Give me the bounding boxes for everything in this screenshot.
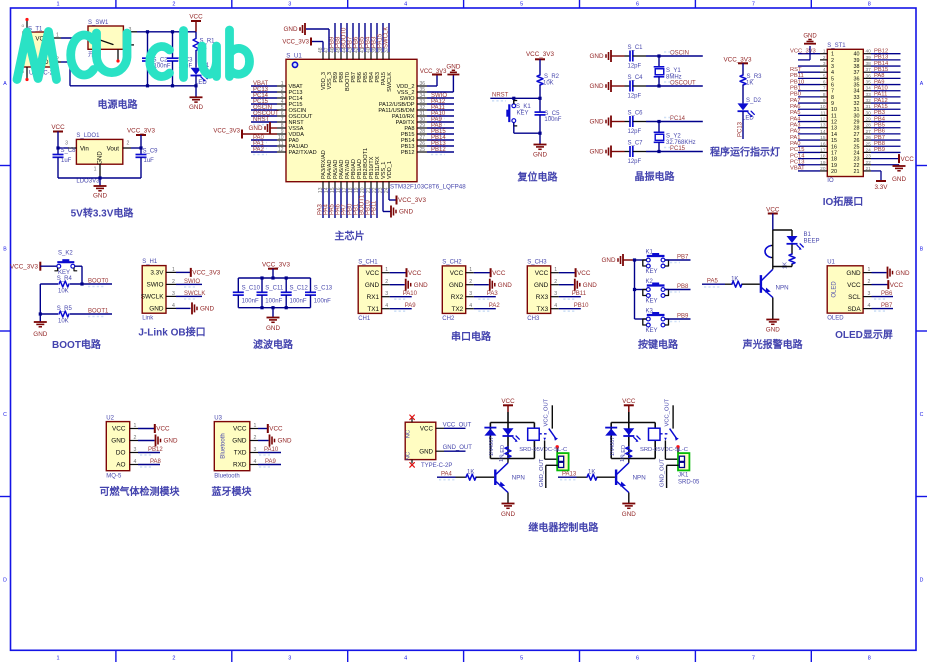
svg-text:S_ST1: S_ST1 (827, 43, 846, 49)
svg-text:S_R5: S_R5 (57, 306, 73, 312)
svg-text:PB11: PB11 (372, 200, 378, 215)
svg-text:GND: GND (98, 151, 104, 165)
svg-text:PB7: PB7 (881, 303, 893, 309)
svg-text:8: 8 (868, 656, 871, 662)
wire relay emitter to ground (507, 493, 509, 504)
capacitor S_C9 1uF (140, 148, 142, 155)
svg-text:电源电路: 电源电路 (98, 98, 139, 111)
svg-text:Vout: Vout (107, 145, 120, 152)
net PB12 at U2 DO (138, 452, 160, 454)
svg-text:S_Y2: S_Y2 (666, 134, 681, 140)
svg-text:S_C4: S_C4 (628, 75, 644, 81)
svg-text:NC: NC (406, 430, 412, 438)
svg-text:PA1: PA1 (790, 135, 801, 141)
svg-text:PC13: PC13 (738, 121, 744, 137)
svg-text:PC14: PC14 (790, 153, 805, 159)
svg-text:D: D (920, 578, 924, 584)
svg-text:PB9: PB9 (874, 147, 885, 153)
svg-text:19: 19 (831, 163, 837, 169)
svg-text:PA2/TX/AD: PA2/TX/AD (289, 150, 317, 156)
svg-text:GND: GND (896, 270, 910, 277)
svg-text:BOOT1: BOOT1 (88, 308, 109, 314)
push button K3 KEY (635, 318, 647, 320)
relay switch (539, 433, 548, 435)
junction dot relay NO contact (676, 445, 679, 448)
net VCC_OUT relay common (551, 405, 553, 428)
net GND_OUT from terminal (667, 464, 679, 466)
transistor Q NPN relay driver (615, 470, 617, 486)
svg-text:S_H1: S_H1 (142, 259, 158, 265)
svg-text:7: 7 (752, 656, 755, 662)
ground GND at OLED (872, 272, 887, 274)
svg-text:按键电路: 按键电路 (638, 338, 679, 351)
svg-text:100nF: 100nF (290, 298, 307, 304)
svg-text:1K: 1K (620, 455, 626, 462)
ground GND keys (622, 254, 624, 266)
svg-text:PC14: PC14 (670, 116, 686, 122)
svg-text:1: 1 (56, 2, 59, 8)
svg-text:VCC_3V3: VCC_3V3 (10, 263, 38, 270)
ground GND at U2 (138, 440, 155, 442)
svg-text:PB7: PB7 (874, 135, 885, 141)
svg-text:GND: GND (602, 257, 616, 264)
svg-text:S_Y1: S_Y1 (666, 68, 681, 74)
svg-text:GND: GND (249, 125, 263, 132)
power VCC at U3 (258, 428, 268, 430)
wire VDD_3 to VCC_3V3 (322, 42, 324, 53)
svg-text:PC15: PC15 (790, 147, 805, 153)
svg-text:U1: U1 (827, 259, 835, 265)
svg-text:OLED: OLED (832, 281, 838, 298)
svg-text:12: 12 (831, 120, 837, 126)
svg-text:4: 4 (404, 656, 407, 662)
svg-text:NPN: NPN (633, 475, 646, 482)
svg-text:PA15: PA15 (874, 104, 888, 110)
net VCC_OUT relay common (672, 405, 674, 428)
svg-text:NPN: NPN (776, 285, 789, 292)
svg-text:GND: GND (399, 209, 413, 216)
svg-text:33: 33 (854, 95, 860, 101)
svg-text:PA0: PA0 (790, 141, 801, 147)
push button K1 KEY (635, 259, 647, 261)
svg-text:TYPE-C-2P: TYPE-C-2P (421, 463, 452, 469)
resistor 1K relay base, net PA4 (437, 476, 456, 478)
svg-text:PC13: PC13 (790, 160, 805, 166)
svg-text:VCC_3V3: VCC_3V3 (723, 56, 751, 63)
capacitor S_C1 12pF with ground and net OSCIN (610, 50, 612, 62)
resistor S_R3 1K (740, 75, 746, 85)
S_ST1 pin3 stub (798, 65, 820, 67)
svg-text:J-Link OB接口: J-Link OB接口 (138, 326, 205, 339)
svg-text:GND: GND (766, 327, 780, 334)
svg-text:36: 36 (854, 76, 860, 82)
svg-text:21: 21 (854, 169, 860, 175)
svg-text:PB7: PB7 (677, 255, 689, 261)
svg-text:BOOT0: BOOT0 (88, 278, 109, 284)
svg-text:GND_OUT: GND_OUT (539, 458, 545, 487)
svg-text:PB4: PB4 (874, 116, 886, 122)
svg-text:SRD-05VDC-SL-C: SRD-05VDC-SL-C (519, 447, 567, 453)
svg-text:1K: 1K (746, 81, 753, 87)
svg-text:100nF: 100nF (314, 298, 331, 304)
capacitor S_C2 100nF (142, 57, 153, 59)
svg-text:GND: GND (590, 149, 604, 156)
svg-text:PA4: PA4 (790, 116, 801, 122)
ground GND at S_ST1 pin2 (798, 59, 810, 61)
svg-text:复位电路: 复位电路 (517, 171, 559, 184)
svg-text:GND: GND (446, 63, 460, 70)
svg-text:26: 26 (854, 138, 860, 144)
svg-text:IO: IO (827, 178, 834, 184)
svg-text:10: 10 (831, 107, 837, 113)
svg-text:S_C1: S_C1 (628, 45, 644, 51)
svg-text:PB12: PB12 (431, 147, 446, 153)
junction dot relay NO contact (556, 445, 559, 448)
wire K3 to net PB9 (665, 318, 691, 320)
wire VDD_2 to VCC_3V3 (427, 85, 437, 87)
net SWIO at S_H1 (191, 283, 203, 285)
svg-text:PA8: PA8 (874, 73, 885, 79)
svg-text:8MHz: 8MHz (666, 75, 682, 81)
capacitor S_C7 12pF with ground and net PC15 (610, 146, 612, 158)
svg-text:PB3: PB3 (874, 110, 885, 116)
capacitor S_C10 100nF (237, 278, 239, 292)
svg-text:18: 18 (831, 157, 837, 163)
crystal S_Y2 32.768KHz (658, 122, 660, 133)
svg-text:12pF: 12pF (628, 159, 642, 165)
svg-text:1uF: 1uF (61, 158, 72, 164)
LED D1 (191, 68, 202, 75)
svg-text:PA11: PA11 (874, 92, 887, 98)
svg-text:PA3: PA3 (790, 123, 801, 129)
svg-text:24: 24 (854, 150, 860, 156)
svg-text:VCC_3V3: VCC_3V3 (420, 69, 447, 75)
svg-text:1: 1 (56, 656, 59, 662)
power VCC at U2 (138, 428, 155, 430)
svg-text:GND: GND (803, 34, 817, 40)
svg-text:VBAT: VBAT (790, 166, 805, 172)
svg-text:GND: GND (533, 152, 547, 159)
svg-text:12pF: 12pF (628, 129, 642, 135)
svg-text:声光报警电路: 声光报警电路 (742, 338, 804, 351)
svg-text:主芯片: 主芯片 (335, 230, 365, 243)
svg-text:SWIO: SWIO (146, 282, 163, 289)
header S_H1 J-Link (142, 266, 166, 314)
relay switch (660, 433, 669, 435)
svg-text:VCC_3V3: VCC_3V3 (282, 40, 309, 46)
capacitor S_C12 100nF (285, 278, 287, 292)
svg-text:B: B (920, 247, 924, 253)
svg-text:晶振电路: 晶振电路 (635, 170, 676, 183)
svg-text:GND: GND (590, 83, 604, 90)
svg-text:GND: GND (93, 193, 107, 200)
svg-text:2: 2 (127, 141, 130, 147)
svg-text:3: 3 (288, 2, 291, 8)
resistor 1K alarm (791, 245, 793, 255)
svg-text:PB11: PB11 (572, 291, 587, 297)
svg-text:NRST: NRST (492, 93, 509, 99)
power VCC (191, 20, 201, 22)
capacitor S_C3 10uF (167, 57, 178, 59)
wire cap branch 2 (172, 32, 174, 58)
svg-text:PB0: PB0 (790, 92, 801, 98)
svg-text:Link: Link (142, 316, 154, 322)
svg-text:NRST: NRST (253, 117, 270, 123)
net SWCLK at S_H1 (191, 295, 203, 297)
wire boot pulldown bus (39, 284, 41, 322)
svg-text:VCC: VCC (535, 270, 549, 277)
wire bottom rail (70, 85, 196, 87)
svg-text:S_C9: S_C9 (143, 149, 159, 155)
wire reset bottom (514, 132, 540, 134)
svg-text:PA5: PA5 (790, 110, 801, 116)
svg-text:U2: U2 (106, 416, 114, 422)
svg-text:GND: GND (498, 282, 512, 289)
svg-text:SWIO: SWIO (184, 279, 200, 285)
svg-text:20: 20 (831, 169, 837, 175)
capacitor S_C8 1uF (57, 148, 59, 155)
svg-text:GND_OUT: GND_OUT (443, 445, 473, 451)
header S_CH3 serial CH3 (527, 266, 550, 314)
svg-text:VCC: VCC (233, 426, 247, 433)
svg-text:VCC: VCC (622, 398, 636, 405)
wire S_K2 to BOOT0 (75, 265, 82, 267)
svg-text:Bluetooth: Bluetooth (221, 433, 227, 458)
power VCC at OLED (872, 284, 889, 286)
svg-text:14: 14 (831, 132, 837, 138)
svg-text:1K: 1K (731, 277, 738, 283)
svg-text:VCC: VCC (450, 270, 464, 277)
svg-text:5: 5 (520, 656, 523, 662)
buzzer B1 BEEP (765, 246, 771, 258)
wire K1 to net PB7 (665, 259, 691, 261)
wire LDO bottom rail (58, 177, 141, 179)
relay coil K (649, 428, 661, 440)
svg-text:GND: GND (365, 282, 380, 289)
svg-text:PB9: PB9 (677, 314, 689, 320)
svg-text:PB10: PB10 (574, 303, 589, 309)
svg-text:CH3: CH3 (527, 316, 540, 322)
power VCC_3V3 at LDO (136, 134, 146, 136)
svg-text:可燃气体检测模块: 可燃气体检测模块 (100, 485, 181, 498)
svg-text:S_C8: S_C8 (61, 148, 77, 154)
svg-text:OLED显示屏: OLED显示屏 (835, 329, 893, 341)
net PA10 at U3 TXD (258, 452, 281, 454)
svg-text:KEY: KEY (646, 269, 658, 275)
svg-text:3: 3 (65, 141, 68, 147)
ground GND at U3 (258, 440, 269, 442)
svg-text:10K: 10K (58, 289, 69, 295)
wire LDO output (123, 147, 131, 149)
svg-text:PA4: PA4 (441, 472, 453, 478)
resistor 1K relay led (626, 447, 632, 458)
svg-text:S_U1: S_U1 (286, 52, 302, 59)
power VCC_3V3 above MCU (310, 38, 312, 46)
svg-text:GND: GND (111, 438, 126, 445)
capacitor S_C6 12pF with ground and net PC14 (610, 116, 612, 128)
LED relay indicator (623, 428, 634, 435)
svg-text:TXD: TXD (234, 450, 247, 457)
svg-text:27: 27 (854, 132, 860, 138)
svg-text:S_C6: S_C6 (628, 111, 644, 117)
svg-text:VCC: VCC (51, 124, 65, 131)
no-connect X marks TYPE-C-2P (411, 419, 413, 423)
wire S_T1 pin2 to bottom rail (52, 61, 61, 63)
module U1 OLED (827, 266, 863, 313)
svg-text:4: 4 (831, 70, 834, 76)
header S_ST1 IO expansion (827, 49, 863, 176)
svg-text:C: C (920, 412, 924, 418)
svg-text:K2: K2 (646, 279, 654, 285)
wire LDO ground pin (99, 164, 101, 178)
svg-text:MQ-5: MQ-5 (106, 474, 122, 480)
svg-text:GND: GND (284, 26, 298, 33)
svg-text:RXD: RXD (233, 462, 247, 469)
svg-text:PA13: PA13 (562, 472, 577, 478)
svg-text:PB12: PB12 (148, 447, 163, 453)
wire relay NC contact to terminal (664, 441, 666, 460)
svg-text:STM32F103C8T6_LQFP48: STM32F103C8T6_LQFP48 (390, 183, 466, 190)
power VCC_3V3 below MCU (396, 196, 398, 205)
svg-text:GND: GND (149, 306, 164, 313)
svg-text:PB8: PB8 (874, 141, 885, 147)
svg-text:PB1: PB1 (790, 86, 801, 92)
ground GND alarm (766, 319, 779, 321)
resistor 1K relay base, net PA13 (558, 476, 577, 478)
svg-text:KEY: KEY (517, 110, 529, 116)
wire K2 to net PB8 (665, 289, 691, 291)
svg-text:2: 2 (172, 656, 175, 662)
svg-text:11: 11 (831, 113, 837, 119)
svg-text:BEEP: BEEP (804, 239, 820, 245)
svg-text:K1: K1 (646, 250, 654, 256)
svg-text:10K: 10K (58, 319, 69, 325)
svg-text:GND: GND (590, 119, 604, 126)
resistor S_R5 10K net BOOT1 (40, 313, 58, 315)
svg-text:IO拓展口: IO拓展口 (823, 195, 864, 208)
svg-text:S_LDO1: S_LDO1 (76, 133, 100, 139)
svg-text:PA9: PA9 (405, 303, 417, 309)
svg-text:PA12: PA12 (874, 98, 888, 104)
svg-text:VCC: VCC (901, 156, 915, 163)
svg-text:SWCLK: SWCLK (184, 291, 205, 297)
svg-text:GND: GND (266, 325, 280, 332)
svg-text:GND: GND (278, 438, 292, 445)
svg-text:28: 28 (854, 126, 860, 132)
svg-text:39: 39 (854, 58, 860, 64)
header S_CH1 serial CH1 (358, 266, 381, 314)
wire alarm bottom node (773, 266, 792, 268)
svg-text:A: A (920, 81, 924, 87)
svg-text:VCC_3V3: VCC_3V3 (213, 128, 240, 134)
svg-text:PB12: PB12 (874, 49, 888, 55)
svg-text:17: 17 (831, 150, 837, 156)
module U2 MQ-5 gas sensor (106, 422, 129, 471)
svg-text:S_R4: S_R4 (57, 276, 73, 282)
svg-text:RST: RST (790, 67, 802, 73)
svg-text:S_K1: S_K1 (516, 104, 531, 110)
svg-text:VCC: VCC (577, 270, 591, 277)
LED S_D2 (738, 103, 749, 110)
power 3.3V at S_ST1 pin21 (871, 170, 881, 172)
svg-text:SCL: SCL (848, 294, 861, 301)
svg-text:VCC_OUT: VCC_OUT (443, 422, 472, 428)
ground GND at VSSA (270, 127, 277, 129)
svg-text:PB11: PB11 (790, 73, 804, 79)
svg-text:VCC_3V3: VCC_3V3 (790, 49, 816, 55)
svg-text:B: B (3, 247, 7, 253)
svg-text:37: 37 (854, 70, 860, 76)
svg-text:VCC: VCC (420, 426, 434, 433)
ground GND power circuit (190, 96, 203, 98)
wire S_SW1 pin1 stub (123, 44, 134, 46)
connector S_T1 USB-C-2P (23, 32, 52, 67)
svg-text:GND: GND (846, 270, 861, 277)
terminal block 2p (557, 453, 568, 470)
svg-text:LDO3V3: LDO3V3 (76, 179, 100, 185)
LED in alarm branch (791, 230, 793, 236)
svg-text:S_K2: S_K2 (58, 251, 73, 257)
transistor Q NPN alarm (760, 275, 762, 293)
svg-text:GND: GND (590, 53, 604, 60)
ground GND reset (539, 133, 541, 144)
power VCC_3V3 at S_H1 (190, 268, 192, 277)
svg-text:PA9: PA9 (265, 459, 277, 465)
svg-text:OLED: OLED (827, 316, 844, 322)
svg-text:3: 3 (831, 64, 834, 70)
svg-text:GND: GND (892, 176, 906, 183)
svg-text:34: 34 (854, 89, 860, 95)
svg-text:5: 5 (831, 76, 834, 82)
svg-text:滤波电路: 滤波电路 (253, 338, 294, 351)
svg-text:GND_OUT: GND_OUT (660, 458, 666, 487)
svg-text:13: 13 (831, 126, 837, 132)
watermark placeholder (0, 0, 1, 1)
watermark MCUclub logo (17, 30, 250, 80)
svg-text:PA6: PA6 (790, 104, 801, 110)
svg-text:SRD-05VDC-SL-C: SRD-05VDC-SL-C (640, 447, 688, 453)
svg-text:15: 15 (831, 138, 837, 144)
svg-text:PB6: PB6 (874, 129, 885, 135)
svg-text:38: 38 (854, 64, 860, 70)
svg-text:29: 29 (854, 120, 860, 126)
svg-text:PA8: PA8 (150, 459, 162, 465)
diode 1N4007 flyback (605, 427, 617, 429)
svg-text:1K: 1K (783, 262, 789, 269)
svg-text:40: 40 (854, 52, 860, 58)
svg-text:LED: LED (742, 116, 754, 122)
svg-text:10K: 10K (543, 81, 554, 87)
svg-text:7: 7 (752, 2, 755, 8)
regulator S_LDO1 LDO3V3 (76, 139, 122, 164)
net GND_OUT from terminal (546, 464, 558, 466)
svg-text:SWCLK: SWCLK (384, 27, 390, 48)
svg-text:S_R3: S_R3 (747, 74, 763, 80)
svg-text:NC: NC (406, 452, 412, 460)
wire NRST net (490, 97, 540, 99)
svg-text:GND: GND (501, 511, 515, 518)
svg-text:1N4007: 1N4007 (489, 437, 495, 457)
svg-text:30: 30 (854, 113, 860, 119)
svg-text:2: 2 (172, 2, 175, 8)
svg-text:VCC_3V3: VCC_3V3 (398, 197, 426, 204)
net PB6 at OLED SCL (872, 296, 894, 298)
wire VSS_1 to GND (382, 189, 384, 212)
svg-text:VCC: VCC (847, 282, 861, 289)
ground GND at S_H1 (191, 302, 193, 314)
wire key bus (634, 260, 636, 319)
svg-text:5: 5 (520, 2, 523, 8)
